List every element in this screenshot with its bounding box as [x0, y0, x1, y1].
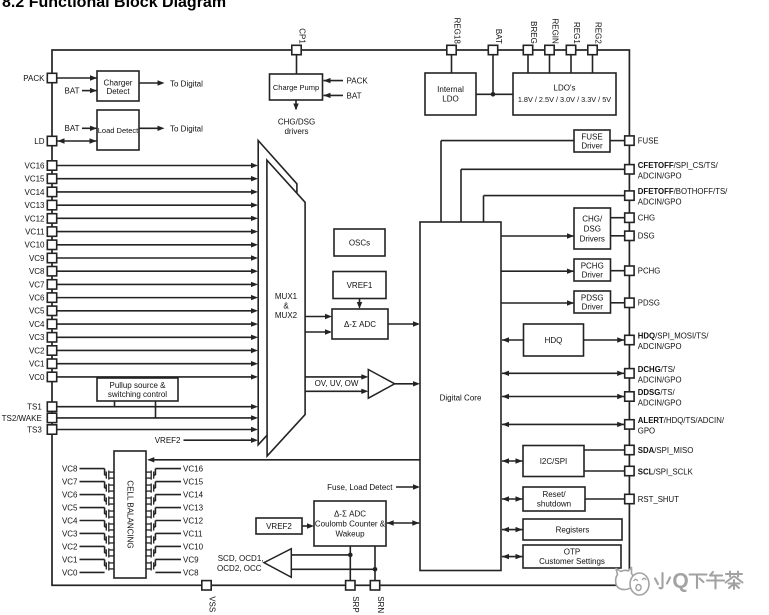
- svg-text:VC15: VC15: [24, 175, 45, 184]
- svg-text:DCHG/TS/: DCHG/TS/: [638, 365, 676, 374]
- svg-text:VC5: VC5: [29, 307, 45, 316]
- svg-text:VREF2: VREF2: [155, 436, 181, 445]
- svg-text:BAT: BAT: [347, 91, 362, 100]
- svg-text:Fuse, Load Detect: Fuse, Load Detect: [327, 483, 393, 492]
- svg-text:SCL/SPI_SCLK: SCL/SPI_SCLK: [638, 467, 694, 476]
- svg-text:Reset/: Reset/: [542, 490, 566, 499]
- svg-text:VC11: VC11: [25, 227, 45, 236]
- svg-text:VSS: VSS: [207, 596, 216, 612]
- svg-text:REG2: REG2: [593, 22, 602, 44]
- svg-text:VC14: VC14: [183, 490, 204, 499]
- svg-text:CHG/: CHG/: [582, 214, 603, 223]
- svg-text:VC1: VC1: [62, 555, 78, 564]
- svg-text:VC13: VC13: [183, 503, 204, 512]
- svg-text:VC6: VC6: [29, 294, 45, 303]
- svg-text:VREF2: VREF2: [266, 522, 292, 531]
- svg-text:MUX1: MUX1: [275, 292, 298, 301]
- svg-text:VC8: VC8: [62, 465, 78, 474]
- svg-text:VC7: VC7: [62, 477, 78, 486]
- svg-text:VC8: VC8: [183, 568, 199, 577]
- svg-text:VC4: VC4: [29, 320, 45, 329]
- svg-text:VC1: VC1: [29, 360, 45, 369]
- svg-text:VC12: VC12: [24, 214, 45, 223]
- svg-text:VREF1: VREF1: [347, 281, 373, 290]
- svg-text:VC0: VC0: [29, 373, 45, 382]
- svg-text:ALERT/HDQ/TS/ADCIN/: ALERT/HDQ/TS/ADCIN/: [638, 416, 725, 425]
- svg-text:TS1: TS1: [27, 403, 42, 412]
- svg-text:TS2/WAKE: TS2/WAKE: [2, 414, 42, 423]
- svg-text:BAT: BAT: [65, 87, 80, 96]
- svg-text:HDQ: HDQ: [545, 336, 563, 345]
- svg-text:VC2: VC2: [62, 542, 78, 551]
- svg-text:Pullup source &: Pullup source &: [109, 381, 166, 390]
- svg-text:OSCs: OSCs: [349, 238, 370, 247]
- svg-text:GPO: GPO: [638, 427, 655, 436]
- svg-text:VC10: VC10: [183, 542, 204, 551]
- svg-text:Detect: Detect: [106, 87, 130, 96]
- svg-text:Digital Core: Digital Core: [440, 393, 482, 402]
- svg-text:Δ-Σ ADC: Δ-Σ ADC: [334, 509, 366, 518]
- svg-text:Customer Settings: Customer Settings: [539, 557, 605, 566]
- svg-text:Drivers: Drivers: [580, 234, 605, 243]
- svg-text:Registers: Registers: [556, 525, 590, 534]
- svg-text:CHG: CHG: [638, 214, 655, 223]
- svg-text:CFETOFF/SPI_CS/TS/: CFETOFF/SPI_CS/TS/: [638, 161, 719, 170]
- svg-text:VC2: VC2: [29, 346, 45, 355]
- svg-text:DDSG/TS/: DDSG/TS/: [638, 388, 676, 397]
- svg-text:Wakeup: Wakeup: [335, 529, 365, 538]
- svg-text:Driver: Driver: [582, 302, 604, 311]
- svg-text:LD: LD: [34, 137, 44, 146]
- svg-text:FUSE: FUSE: [638, 137, 659, 146]
- svg-text:VC10: VC10: [24, 241, 45, 250]
- svg-text:VC9: VC9: [29, 254, 45, 263]
- svg-text:8.2 Functional Block Diagram: 8.2 Functional Block Diagram: [2, 0, 226, 11]
- svg-text:REG18: REG18: [452, 18, 461, 45]
- svg-text:drivers: drivers: [284, 127, 308, 136]
- svg-text:&: &: [283, 302, 289, 311]
- svg-text:VC16: VC16: [183, 465, 204, 474]
- svg-text:VC13: VC13: [24, 201, 45, 210]
- svg-text:CP1: CP1: [297, 28, 306, 44]
- svg-text:DFETOFF/BOTHOFF/TS/: DFETOFF/BOTHOFF/TS/: [638, 187, 728, 196]
- svg-text:ADCIN/GPO: ADCIN/GPO: [638, 375, 682, 384]
- svg-text:HDQ/SPI_MOSI/TS/: HDQ/SPI_MOSI/TS/: [638, 332, 709, 341]
- svg-text:switching control: switching control: [108, 390, 167, 399]
- svg-text:To Digital: To Digital: [170, 124, 203, 133]
- svg-text:VC8: VC8: [29, 267, 45, 276]
- svg-text:RST_SHUT: RST_SHUT: [638, 495, 679, 504]
- svg-text:VC3: VC3: [62, 529, 78, 538]
- svg-text:To Digital: To Digital: [170, 79, 203, 88]
- svg-text:ADCIN/GPO: ADCIN/GPO: [638, 399, 682, 408]
- svg-text:Q: Q: [672, 570, 688, 593]
- svg-text:PDSG: PDSG: [581, 293, 604, 302]
- svg-text:VC0: VC0: [62, 568, 78, 577]
- svg-text:SRP: SRP: [351, 596, 360, 612]
- svg-text:Charge Pump: Charge Pump: [273, 83, 319, 92]
- svg-text:VC12: VC12: [183, 516, 204, 525]
- svg-text:PCHG: PCHG: [581, 261, 604, 270]
- svg-text:OV, UV, OW: OV, UV, OW: [315, 379, 359, 388]
- svg-text:VC5: VC5: [62, 503, 78, 512]
- svg-text:PACK: PACK: [23, 74, 45, 83]
- svg-text:DSG: DSG: [584, 224, 601, 233]
- svg-text:Δ-Σ ADC: Δ-Σ ADC: [344, 320, 376, 329]
- svg-text:VC6: VC6: [62, 490, 78, 499]
- svg-text:shutdown: shutdown: [537, 500, 571, 509]
- svg-text:VC4: VC4: [62, 516, 78, 525]
- svg-text:VC14: VC14: [24, 188, 45, 197]
- svg-text:Load Detect: Load Detect: [98, 126, 139, 135]
- svg-text:ADCIN/GPO: ADCIN/GPO: [638, 342, 682, 351]
- svg-text:ADCIN/GPO: ADCIN/GPO: [638, 198, 682, 207]
- svg-text:VC16: VC16: [24, 161, 45, 170]
- svg-text:TS3: TS3: [27, 425, 42, 434]
- svg-text:LDO: LDO: [442, 95, 458, 104]
- svg-text:VC9: VC9: [183, 555, 199, 564]
- svg-text:BAT: BAT: [494, 29, 503, 44]
- svg-text:Driver: Driver: [582, 270, 604, 279]
- svg-text:REG1: REG1: [572, 22, 581, 44]
- svg-text:PCHG: PCHG: [638, 267, 661, 276]
- svg-text:ADCIN/GPO: ADCIN/GPO: [638, 171, 682, 180]
- svg-text:CHG/DSG: CHG/DSG: [278, 117, 315, 126]
- svg-text:MUX2: MUX2: [275, 311, 298, 320]
- svg-text:PDSG: PDSG: [638, 299, 660, 308]
- svg-text:OCD2, OCC: OCD2, OCC: [217, 564, 262, 573]
- svg-text:DSG: DSG: [638, 232, 655, 241]
- svg-text:SRN: SRN: [376, 596, 385, 613]
- svg-text:SDA/SPI_MISO: SDA/SPI_MISO: [638, 446, 693, 455]
- svg-text:Driver: Driver: [581, 141, 603, 150]
- svg-text:I2C/SPI: I2C/SPI: [540, 457, 568, 466]
- svg-text:REGIN: REGIN: [550, 18, 559, 44]
- svg-text:VC7: VC7: [29, 280, 45, 289]
- svg-text:FUSE: FUSE: [581, 132, 602, 141]
- svg-text:1.8V / 2.5V / 3.0V / 3.3V / 5V: 1.8V / 2.5V / 3.0V / 3.3V / 5V: [518, 95, 611, 104]
- svg-text:LDO's: LDO's: [554, 83, 576, 92]
- svg-text:VC11: VC11: [183, 529, 203, 538]
- svg-text:SCD, OCD1,: SCD, OCD1,: [218, 554, 264, 563]
- svg-text:CELL BALANCING: CELL BALANCING: [126, 480, 135, 548]
- svg-text:VC3: VC3: [29, 333, 45, 342]
- svg-text:VC15: VC15: [183, 477, 204, 486]
- svg-text:BREG: BREG: [529, 21, 538, 44]
- svg-text:OTP: OTP: [564, 548, 580, 557]
- svg-text:BAT: BAT: [65, 124, 80, 133]
- svg-text:Internal: Internal: [437, 85, 464, 94]
- svg-text:Coulomb Counter &: Coulomb Counter &: [315, 519, 386, 528]
- svg-text:PACK: PACK: [347, 77, 369, 86]
